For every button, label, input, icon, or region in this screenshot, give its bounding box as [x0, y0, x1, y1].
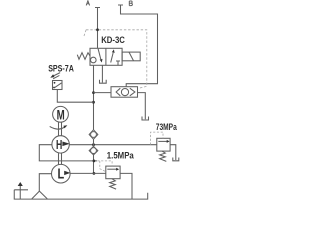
node B label	[129, 1, 132, 6]
relief valve 1.5MPa body	[106, 166, 120, 179]
pump L	[52, 164, 71, 183]
valve position 1: flow arrow	[98, 49, 101, 60]
wire between diamonds	[93, 139, 95, 146]
wire below CV2	[93, 155, 95, 174]
tank T3	[173, 158, 179, 161]
pressure switch actuator arrow	[53, 73, 61, 77]
valve spring	[77, 53, 90, 60]
pump L suction wire	[39, 174, 51, 191]
svg-text:SPS-7A: SPS-7A	[48, 64, 74, 74]
strainer	[32, 191, 48, 199]
tank T2	[142, 117, 149, 121]
pump H	[52, 136, 69, 153]
relief valve 73MPa spring	[160, 151, 167, 161]
reservoir tank outline	[14, 190, 147, 199]
pressure switch SPS-7A body	[53, 81, 63, 90]
main vertical wire from valve port P	[93, 65, 95, 129]
junction dot node P4	[93, 160, 96, 163]
port B wire	[118, 5, 158, 87]
check valve box (double check valve)	[111, 87, 138, 98]
junction dot node P3	[92, 143, 95, 146]
breather arrow	[19, 185, 21, 200]
wire to pressure switch	[57, 90, 93, 103]
junction dot on enclosure at A line	[96, 28, 99, 31]
rotation arrow	[50, 126, 65, 129]
valve drain line to tank	[101, 65, 103, 82]
shaft between motor and pump H	[59, 122, 62, 136]
svg-text:L: L	[58, 167, 65, 183]
valve position 2: blocked port T	[116, 61, 120, 65]
svg-text:73MPa: 73MPa	[156, 122, 178, 132]
svg-text:H: H	[56, 137, 62, 152]
wire to check valve box	[94, 92, 112, 94]
check valve CV1 diamond	[89, 130, 98, 140]
svg-text:M: M	[57, 108, 65, 123]
check valve CV2 diamond	[89, 146, 98, 155]
node A label	[86, 1, 89, 6]
relief valve 73MPa body	[157, 138, 170, 151]
solenoid U1	[122, 52, 140, 61]
pump H suction wire	[39, 145, 97, 161]
port A	[95, 8, 100, 49]
pump H outlet wire to relief valve	[69, 144, 157, 146]
valve position 1: check ball	[91, 57, 97, 63]
svg-text:KD-3C: KD-3C	[101, 35, 125, 45]
pump L outlet wire through 1.5MPa valve	[70, 173, 132, 199]
relief valve 1.5MPa spring	[110, 179, 116, 189]
valve position 2: flow arrow	[111, 53, 113, 63]
junction dot node P1	[92, 91, 95, 94]
check box right port wire	[138, 93, 146, 120]
relief valve 73MPa outlet wire	[170, 145, 176, 160]
junction dot node P2	[92, 101, 95, 104]
valve KD-3C body	[90, 48, 122, 65]
shaft between pump H and pump L	[59, 153, 62, 164]
relief valve 73MPa pilot dashed	[151, 132, 164, 145]
dashed manifold enclosure	[84, 30, 147, 89]
tank T1 under valve	[100, 80, 107, 83]
svg-text:1.5MPa: 1.5MPa	[107, 151, 135, 161]
relief valve 1.5MPa pilot dashed	[97, 161, 112, 172]
junction dot node P5	[93, 172, 96, 175]
motor M	[53, 106, 69, 122]
